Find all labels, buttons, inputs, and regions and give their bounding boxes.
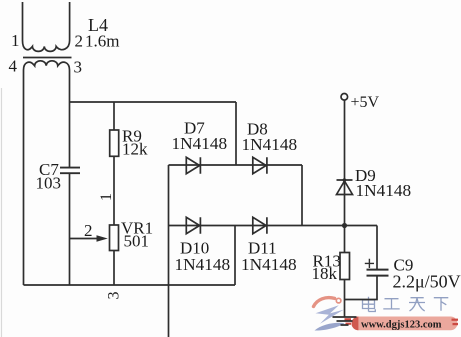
wire R13 down to ground <box>344 280 346 318</box>
wire C7 down <box>69 174 71 285</box>
wire center tap down <box>234 226 236 286</box>
wire R9 to VR1 <box>113 156 115 225</box>
wire wiper arrow to VR1 <box>70 238 98 240</box>
wire R9 branch <box>113 102 115 130</box>
inductor L4 primary winding <box>23 2 70 51</box>
wire bridge left vertical <box>168 165 170 337</box>
wire bridge top feed <box>235 102 237 165</box>
wire bridge right vertical <box>301 165 303 226</box>
diode D9 <box>337 180 353 195</box>
capacitor C7 <box>60 168 80 174</box>
wire junction to C9 <box>345 225 378 227</box>
watermark logo <box>314 298 345 331</box>
svg-text:2.2μ/50V: 2.2μ/50V <box>393 272 461 292</box>
wire bridge top row <box>169 164 303 166</box>
diode D8 <box>253 157 267 173</box>
wire top horizontal <box>70 101 237 103</box>
resistor R13 <box>340 253 350 280</box>
wire R13 branch <box>344 226 346 253</box>
svg-text:2: 2 <box>84 221 93 240</box>
terminal +5V <box>341 94 348 101</box>
svg-text:www.dgjs123.com: www.dgjs123.com <box>361 320 442 331</box>
C9 polarity plus <box>365 259 374 268</box>
svg-text:1N4148: 1N4148 <box>175 255 231 274</box>
svg-text:1: 1 <box>11 31 20 50</box>
junction node <box>342 223 347 228</box>
svg-text:1.6m: 1.6m <box>85 32 119 51</box>
svg-text:18k: 18k <box>312 264 338 283</box>
ground <box>333 317 357 325</box>
svg-text:1: 1 <box>98 193 115 201</box>
watermark banner www.dgjs123.com <box>345 317 459 331</box>
wire bottom rail <box>24 284 236 286</box>
svg-text:12k: 12k <box>122 140 148 159</box>
svg-text:1N4148: 1N4148 <box>242 135 298 154</box>
svg-text:1N4148: 1N4148 <box>356 181 412 200</box>
capacitor C9 <box>367 270 389 276</box>
svg-text:3: 3 <box>106 292 123 300</box>
resistor R9 <box>110 130 119 156</box>
wire +5V down <box>344 100 346 225</box>
transformer core <box>23 57 72 59</box>
svg-text:4: 4 <box>9 57 18 76</box>
wire left leg down <box>23 72 25 285</box>
inductor L4 secondary winding <box>24 61 70 72</box>
diode D11 <box>253 217 267 233</box>
svg-text:103: 103 <box>36 174 62 193</box>
wire bridge bottom row <box>169 225 345 227</box>
wire C9 return <box>345 276 378 300</box>
scan artifact left edge <box>1 88 3 337</box>
wire C9 branch down <box>376 226 378 270</box>
wire VR1 down <box>113 251 115 286</box>
watermark text 电工天下 <box>363 297 449 312</box>
svg-text:2: 2 <box>75 32 84 51</box>
svg-text:1N4148: 1N4148 <box>241 255 297 274</box>
svg-text:501: 501 <box>124 232 150 251</box>
potentiometer VR1 <box>110 225 119 251</box>
svg-text:1N4148: 1N4148 <box>172 134 228 153</box>
diode D7 <box>186 157 200 173</box>
wire right leg to C7 <box>69 72 71 167</box>
svg-text:3: 3 <box>74 58 83 77</box>
diode D10 <box>186 217 200 233</box>
svg-text:+5V: +5V <box>351 94 380 111</box>
